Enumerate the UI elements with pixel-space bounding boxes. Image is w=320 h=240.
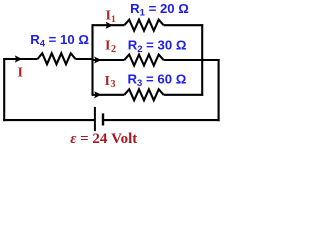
current arrow I2 on branch 2 [94, 57, 101, 64]
current arrow I3 on branch 3 [94, 91, 101, 98]
wire: branch 2 left segment [92, 59, 124, 61]
wire: branch 1 left segment [92, 24, 124, 26]
wire: bottom right segment from battery [103, 119, 220, 121]
wire: R4 to junction node [76, 58, 94, 60]
svg-text:I1: I1 [106, 9, 116, 26]
wire: top-left horizontal into R4 [3, 58, 37, 60]
wire: branch 2 right segment to outer rail [164, 59, 220, 61]
svg-text:R2 = 30 Ω: R2 = 30 Ω [128, 37, 187, 55]
svg-text:R1 = 20 Ω: R1 = 20 Ω [130, 1, 189, 19]
wire: bottom left segment to battery [3, 119, 94, 121]
resistor R3 zigzag [124, 89, 163, 100]
battery cell short plate (-) [102, 113, 104, 125]
svg-text:ε = 24 Volt: ε = 24 Volt [70, 131, 137, 147]
resistor R2 zigzag [124, 55, 163, 66]
current arrow I1 on branch 1 [106, 22, 113, 29]
resistor R1 zigzag [124, 20, 163, 31]
wire: outer right vertical (x=218.6) [218, 59, 220, 121]
svg-text:I: I [18, 65, 23, 80]
svg-text:I2: I2 [105, 39, 116, 55]
wire: left vertical (x=4) [3, 58, 5, 121]
wire: branch 3 left segment [92, 94, 124, 96]
svg-text:R4 = 10 Ω: R4 = 10 Ω [30, 32, 89, 50]
svg-text:R3 = 60 Ω: R3 = 60 Ω [128, 71, 187, 89]
wire: right rail A vertical (x=202) [201, 24, 203, 96]
current arrow I on R4 wire [15, 55, 22, 62]
wire: branch 1 right segment to right rail [164, 24, 204, 26]
wire: junction vertical (node between R4 and parallel bank) [91, 24, 93, 96]
resistor R4 zigzag [38, 53, 76, 64]
wire: branch 3 right segment to right rail [164, 94, 204, 96]
battery cell long plate (+) [94, 107, 96, 131]
svg-text:I3: I3 [105, 74, 116, 90]
